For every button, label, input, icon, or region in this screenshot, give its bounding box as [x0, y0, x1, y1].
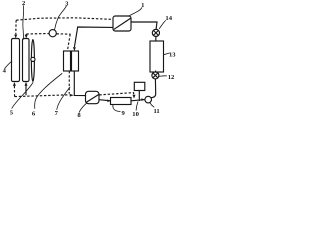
- dashed sensor to HX: [57, 33, 71, 35]
- leader 5: [12, 83, 33, 109]
- leader 12: [159, 75, 167, 78]
- pump circle (component 11): [145, 96, 152, 103]
- dashed HX bottom left drop: [68, 71, 70, 94]
- leader 8: [79, 103, 86, 112]
- arrowhead up into right cylinder: [25, 82, 28, 86]
- wire valve V2 down to pump: [151, 79, 156, 98]
- svg-text:11: 11: [153, 108, 159, 115]
- dashed bottom bus: [15, 95, 70, 97]
- valve V2 (component 12): [152, 72, 159, 79]
- svg-text:10: 10: [132, 111, 139, 118]
- leader 6: [35, 74, 62, 109]
- sensor circle (component 3): [49, 30, 56, 37]
- dashed control line from box8: [99, 93, 133, 95]
- dashed corner down into HX: [68, 34, 71, 50]
- leader 1: [128, 8, 142, 17]
- wire discharge compressor to valve V1: [131, 22, 157, 29]
- wire pump to orifice rect: [131, 100, 145, 101]
- arrowhead down control line: [133, 95, 136, 99]
- leader 11: [150, 103, 154, 108]
- leader 9: [113, 105, 120, 112]
- orifice rect (component 9): [111, 98, 132, 105]
- dashed drop into left cylinder: [15, 20, 17, 34]
- wire heat exchanger top right feed: [75, 27, 114, 47]
- arrowhead down into heat exchanger: [73, 47, 76, 51]
- leader 3: [55, 6, 67, 30]
- leader 2: [22, 6, 25, 40]
- wire right cylinder bottom connector: [25, 85, 27, 95]
- control box (component 10): [134, 82, 145, 90]
- wire heat exchanger bottom to box8: [74, 71, 85, 96]
- wire valve V1 to receiver: [155, 37, 157, 42]
- svg-text:1: 1: [141, 2, 144, 9]
- arrowhead right at bus end: [70, 94, 74, 97]
- box 8 diagonal: [86, 95, 98, 103]
- dashed riser to left cylinder bottom: [13, 85, 15, 96]
- svg-text:12: 12: [168, 74, 175, 81]
- fan blade: [31, 40, 34, 82]
- valve V1 (component 14): [152, 29, 159, 36]
- leader 7: [57, 87, 70, 110]
- wire control box stem: [138, 91, 140, 101]
- arrowhead up into left cylinder bottom: [13, 82, 16, 86]
- receiver tank (component 13): [150, 41, 164, 72]
- wire box8 to orifice rect: [99, 100, 110, 101]
- wire receiver to valve V2: [155, 70, 157, 73]
- arrowhead down into right cylinder top: [25, 35, 28, 39]
- arrowhead into pump: [141, 98, 145, 101]
- arrowhead down into left cylinder top: [14, 35, 17, 39]
- fan hub: [31, 57, 35, 61]
- heat exchanger left tube: [64, 51, 71, 71]
- heat exchanger right tube: [72, 51, 79, 71]
- adsorber cylinder left (component 5): [12, 39, 20, 82]
- leader 10: [136, 102, 138, 110]
- leader 13: [164, 53, 170, 55]
- dashed suction bus to compressor: [16, 18, 113, 20]
- compressor U1 (component 1): [113, 16, 131, 31]
- pump/compressor 2 box (component 8): [86, 91, 100, 103]
- adsorber cylinder right (component 6 area): [23, 39, 30, 82]
- leader 4: [5, 61, 12, 68]
- svg-text:13: 13: [169, 51, 176, 58]
- arrowhead into orifice rect: [107, 100, 111, 103]
- leader 14: [159, 21, 165, 29]
- dashed sensing line right cylinder to sensor: [26, 33, 49, 36]
- compressor diagonal: [114, 18, 130, 29]
- svg-text:14: 14: [165, 15, 172, 22]
- dashed sensing drop arrow stub: [25, 34, 27, 36]
